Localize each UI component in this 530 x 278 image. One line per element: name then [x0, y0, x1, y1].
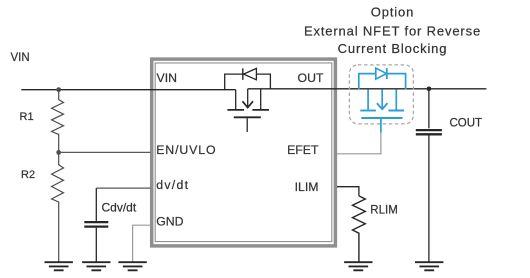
junction dot VIN/R1: [56, 87, 61, 92]
IC U1 outer border: [152, 59, 336, 246]
svg-text:RLIM: RLIM: [370, 205, 397, 217]
svg-text:Current Blocking: Current Blocking: [338, 41, 448, 56]
capacitor COUT: [416, 89, 442, 262]
svg-text:GND: GND: [156, 214, 183, 228]
resistor R2: [52, 152, 64, 262]
resistor RLIM: [353, 196, 366, 262]
ground (R2): [45, 262, 73, 270]
svg-text:dv/dt: dv/dt: [156, 178, 189, 192]
junction dot OUT/COUT: [427, 87, 432, 92]
wire ILIM: [337, 187, 359, 196]
external NFET body diode: [359, 68, 406, 89]
ground (COUT): [415, 262, 443, 270]
external NFET Q1: [360, 89, 404, 132]
ground (RLIM): [344, 262, 372, 270]
wire EN/UVLO: [59, 151, 151, 153]
svg-text:COUT: COUT: [450, 118, 483, 130]
svg-text:EN/UVLO: EN/UVLO: [156, 143, 216, 157]
svg-text:Cdv/dt: Cdv/dt: [102, 201, 137, 215]
svg-text:External NFET for Reverse: External NFET for Reverse: [304, 23, 481, 38]
capacitor Cdv/dt: [84, 188, 108, 262]
wire EFET gate: [337, 133, 381, 154]
svg-text:ILIM: ILIM: [295, 180, 319, 194]
option dashed box: [349, 65, 413, 124]
wire GND pin: [133, 225, 151, 262]
svg-text:Option: Option: [371, 4, 414, 19]
wire OUT rail: [248, 88, 487, 90]
svg-text:R2: R2: [21, 169, 35, 181]
ground (GND pin): [118, 262, 146, 270]
ground (Cdv/dt): [82, 262, 110, 270]
svg-text:VIN: VIN: [11, 52, 30, 64]
junction dot R1/R2/EN: [56, 150, 61, 155]
resistor R1: [52, 90, 64, 153]
svg-text:OUT: OUT: [298, 71, 324, 85]
IC internal body diode: [225, 68, 271, 90]
svg-text:R1: R1: [20, 111, 34, 123]
wire dv/dt: [96, 187, 150, 189]
svg-text:VIN: VIN: [157, 71, 178, 85]
IC U1 inner border: [155, 63, 332, 242]
IC internal MOSFET: [227, 89, 269, 132]
wire VIN rail: [21, 89, 235, 91]
svg-text:EFET: EFET: [287, 143, 319, 157]
title option note: [304, 4, 481, 56]
